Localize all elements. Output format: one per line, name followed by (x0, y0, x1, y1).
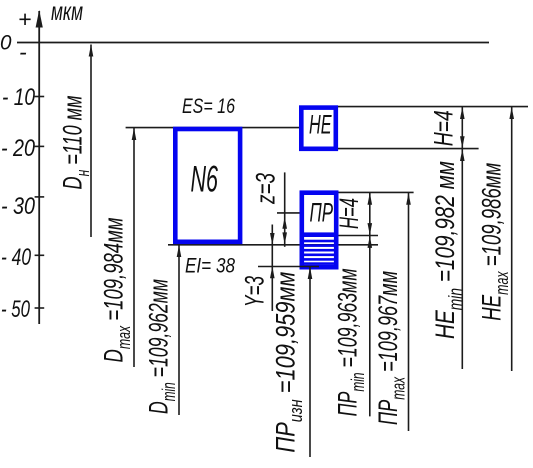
dimension line Dн (90, 45, 92, 238)
arrowhead H=4 НЕ upper (460, 107, 465, 119)
svg-text:НЕ: НЕ (309, 109, 332, 139)
НЕ bottom extension line (338, 148, 479, 150)
arrowhead H=4 НЕ lower (460, 136, 465, 148)
dimension line Dmax (133, 128, 135, 367)
arrowhead z upper (282, 217, 287, 229)
ПР wear zone hatch stripe 3 (302, 249, 337, 252)
N6 tolerance zone box (175, 129, 240, 242)
extension line Dmin level (168, 244, 378, 246)
zero line (17, 42, 489, 44)
dimension line Н=4 and ПРmin (369, 192, 371, 416)
arrowhead ПРmax (406, 193, 411, 205)
arrowhead Y upper (270, 233, 275, 245)
dimension line Dmin (178, 245, 180, 415)
dimension line H=4 and НЕmin (461, 107, 463, 369)
ПР wear zone hatch stripe 4 (302, 254, 337, 257)
svg-text:EI= 38: EI= 38 (185, 255, 235, 278)
svg-text:- 40: - 40 (1, 244, 31, 271)
arrowhead Dmin (177, 245, 182, 257)
ПР wear zone hatch stripe 6 (302, 262, 337, 265)
svg-text:Dн =110 мм: Dн =110 мм (58, 96, 94, 190)
arrowhead Н=4 ПР lower (368, 223, 373, 235)
svg-text:N6: N6 (191, 159, 219, 200)
axis tick -30 (35, 196, 45, 198)
svg-text:Y=3: Y=3 (240, 276, 270, 307)
arrowhead z lower (282, 232, 287, 244)
ПР wear zone bottom edge (300, 265, 339, 270)
НЕ gauge box (301, 108, 336, 149)
arrowhead ПРизн (308, 267, 313, 279)
svg-text:ПРизн =109,959мм: ПРизн =109,959мм (271, 272, 307, 453)
svg-text:0: 0 (0, 32, 12, 55)
svg-text:ПРmax =109,967мм: ПРmax =109,967мм (373, 271, 409, 425)
ПРmin level extension line (339, 235, 379, 237)
ПР wear zone hatch stripe 1 (302, 240, 337, 243)
ПР top extension line (339, 191, 414, 193)
ПР center extension line (277, 212, 300, 214)
svg-text:ПРmin =109,963мм: ПРmin =109,963мм (333, 268, 369, 416)
arrowhead Dmax (132, 128, 137, 140)
axis tick -20 (35, 145, 45, 147)
ПР wear zone hatch stripe 2 (302, 244, 337, 247)
svg-text:НЕmin =109,982 мм: НЕmin =109,982 мм (430, 161, 466, 339)
axis tick -10 (35, 96, 45, 98)
svg-text:- 30: - 30 (1, 193, 36, 220)
z dimension line (284, 172, 286, 246)
ПР gauge box (302, 193, 336, 235)
axis tick -40 (35, 254, 45, 256)
arrowhead НЕmin (460, 149, 465, 161)
svg-text:- 20: - 20 (1, 135, 36, 162)
svg-text:ES= 16: ES= 16 (182, 95, 235, 118)
svg-text:мкм: мкм (51, 0, 83, 26)
axis tick -50 (35, 307, 45, 309)
НЕ top extension line (338, 106, 528, 108)
arrowhead Dн (89, 45, 94, 57)
arrowhead ПРmin (368, 236, 373, 248)
svg-text:- 10: - 10 (2, 84, 36, 111)
vertical axis line (38, 11, 40, 324)
svg-text:-: - (19, 39, 27, 65)
dimension line ПРизн (309, 267, 311, 457)
dimension line ПРmax (408, 192, 410, 431)
extension line Dmax level (126, 127, 299, 129)
ПР wear zone hatch stripe 5 (302, 258, 337, 261)
svg-text:z=3: z=3 (251, 173, 281, 205)
svg-text:Dmin =109,962мм: Dmin =109,962мм (144, 279, 180, 414)
arrowhead НЕmax (509, 107, 514, 119)
ПР wear zone left border (300, 234, 305, 269)
svg-text:ПР: ПР (310, 198, 334, 228)
arrowhead Y lower (270, 266, 275, 278)
arrowhead Н=4 ПР upper (368, 193, 373, 205)
svg-text:Н=4: Н=4 (334, 198, 364, 229)
svg-text:+: + (18, 6, 31, 32)
svg-text:Dmax =109,984мм: Dmax =109,984мм (99, 218, 135, 363)
axis arrowhead (36, 10, 43, 28)
Y dimension line (271, 225, 273, 312)
ПРизн level extension line (258, 266, 319, 268)
dimension line НЕmax (511, 107, 513, 371)
svg-text:Н=4: Н=4 (429, 110, 459, 146)
svg-text:- 50: - 50 (1, 296, 30, 323)
ПР wear zone right border (334, 234, 339, 269)
svg-text:НЕmax =109,986мм: НЕmax =109,986мм (477, 163, 513, 321)
